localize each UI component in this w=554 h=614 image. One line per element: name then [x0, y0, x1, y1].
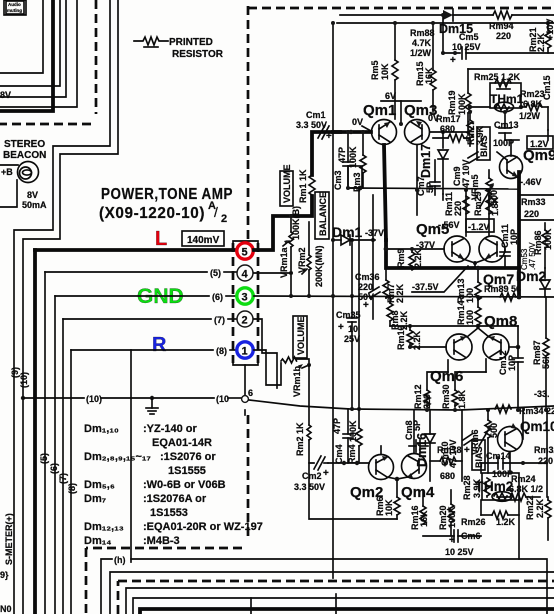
- svg-text:2: 2: [221, 213, 227, 225]
- svg-text:9}: 9}: [0, 570, 9, 580]
- svg-text:Qm9: Qm9: [523, 147, 554, 164]
- svg-text:VOLUME: VOLUME: [282, 164, 292, 203]
- lamp wires: [0, 164, 18, 166]
- svg-text:-37.5V: -37.5V: [412, 282, 439, 292]
- svg-text:Rm28: Rm28: [462, 475, 472, 500]
- svg-text:Qm8: Qm8: [484, 313, 517, 330]
- svg-text:47P: 47P: [337, 147, 347, 163]
- svg-text:220: 220: [358, 282, 373, 292]
- svg-text:Rm23: Rm23: [520, 89, 545, 99]
- junction dots lower bus: [350, 407, 354, 411]
- transistor Qm5: [444, 236, 470, 262]
- svg-text:(10: (10: [216, 394, 229, 404]
- svg-text:Cm36: Cm36: [355, 272, 380, 282]
- thick wire L net: [35, 248, 236, 252]
- emitter join Qm5 Qm7: [463, 259, 486, 263]
- svg-text:Dm₂,₈,₉,₁₅~₁₇: Dm₂,₈,₉,₁₅~₁₇: [84, 451, 151, 463]
- pot VRm1b: [281, 357, 297, 363]
- svg-text:-33.: -33.: [534, 389, 550, 399]
- BIAS box 2: [472, 440, 485, 470]
- svg-text:-.56V: -.56V: [438, 220, 460, 230]
- svg-text:VRm2: VRm2: [297, 247, 307, 273]
- wire staircase S1: [14, 0, 110, 614]
- wire (10) row: [23, 397, 84, 399]
- svg-text:(6): (6): [49, 463, 59, 474]
- vertical column x443: [442, 15, 444, 53]
- svg-text:Rm4: Rm4: [347, 444, 357, 464]
- svg-text:Dm₇: Dm₇: [84, 493, 106, 505]
- capacitor Cm1: [318, 125, 325, 138]
- svg-text:100: 100: [465, 288, 475, 303]
- dashed boundary lower: [247, 415, 250, 540]
- svg-text:220: 220: [538, 456, 553, 466]
- wire pin4 to pot: [254, 272, 291, 274]
- svg-text:EQA01-14R: EQA01-14R: [152, 437, 212, 449]
- svg-text::M4B-3: :M4B-3: [143, 535, 180, 547]
- wire corner 3 top-left: [0, 0, 66, 97]
- svg-text:R: R: [152, 334, 167, 356]
- capacitor Cm2: [314, 456, 321, 469]
- svg-text:BALANCE: BALANCE: [318, 192, 328, 236]
- label 1.2V: [527, 136, 553, 149]
- svg-text:/: /: [214, 204, 218, 220]
- svg-text:PRINTED: PRINTED: [169, 37, 213, 48]
- svg-text:(7): (7): [214, 315, 225, 325]
- dashed row: [117, 581, 120, 614]
- collector wires: [380, 446, 382, 454]
- svg-text:-37V: -37V: [365, 228, 384, 238]
- svg-text:1: 1: [242, 346, 248, 358]
- svg-text:Dm17: Dm17: [419, 144, 433, 178]
- svg-text:4.7K: 4.7K: [412, 38, 432, 48]
- svg-text:5P: 5P: [412, 420, 422, 431]
- svg-text:100: 100: [465, 310, 475, 325]
- svg-text::1S2076 or: :1S2076 or: [160, 451, 216, 463]
- vertical x359 long: [358, 188, 360, 409]
- svg-text:(5): (5): [210, 268, 221, 278]
- svg-text:-37V: -37V: [416, 240, 435, 250]
- svg-text:BIAS: BIAS: [474, 446, 484, 468]
- svg-text:220: 220: [496, 31, 511, 41]
- svg-text:THm1: THm1: [490, 92, 524, 106]
- svg-text:3.3 50V: 3.3 50V: [296, 120, 327, 130]
- pot VRm2 balance: [308, 222, 310, 255]
- diode Dm15: [443, 10, 453, 20]
- svg-text:10 25V: 10 25V: [445, 547, 474, 557]
- svg-text:Qm10: Qm10: [520, 419, 554, 434]
- base wire Qm2: [328, 462, 369, 464]
- resistor Rm15 vertical: [432, 23, 434, 70]
- svg-text:STEREO: STEREO: [4, 139, 45, 150]
- svg-text:220: 220: [524, 209, 539, 219]
- resistor Rm1: [309, 175, 315, 195]
- thick bottom wire: [140, 609, 554, 614]
- emitter join: [399, 122, 403, 126]
- svg-text:47P: 47P: [332, 418, 342, 434]
- svg-text:BIAS: BIAS: [479, 135, 489, 157]
- svg-text:1S1553: 1S1553: [150, 507, 188, 519]
- Rm33: [519, 194, 554, 196]
- svg-text:(7): (7): [58, 473, 68, 484]
- pin 1 blue: [237, 342, 253, 358]
- svg-text:Cm15: Cm15: [542, 75, 552, 100]
- svg-text:Rm29: Rm29: [473, 191, 483, 216]
- svg-text:-1.2V: -1.2V: [468, 222, 490, 232]
- wire bus from 6: [249, 400, 554, 410]
- svg-text:(8): (8): [67, 483, 77, 494]
- svg-text:+: +: [338, 322, 344, 333]
- svg-text:6.8K 1/2: 6.8K 1/2: [509, 484, 543, 494]
- collector columns Qm5 Qm7: [465, 190, 467, 236]
- svg-text:Cm1: Cm1: [306, 110, 326, 120]
- svg-text:Qm1: Qm1: [363, 102, 396, 119]
- svg-text:6: 6: [248, 388, 253, 398]
- resistor Rm94: [493, 11, 512, 19]
- emitter join Qm2 Qm4: [387, 477, 408, 479]
- svg-text:Qm4: Qm4: [401, 484, 435, 501]
- svg-text:Rm10: Rm10: [396, 325, 406, 350]
- svg-text:BEACON: BEACON: [3, 150, 46, 161]
- svg-text:6V: 6V: [385, 91, 396, 101]
- svg-text:10K: 10K: [384, 499, 394, 516]
- svg-text:(10): (10): [86, 394, 102, 404]
- pin 3 green: [237, 288, 253, 304]
- svg-text:Rm17: Rm17: [436, 114, 461, 124]
- wire row 3: [126, 588, 554, 614]
- wire row 4: [133, 598, 554, 614]
- svg-text:3.9K: 3.9K: [472, 478, 482, 498]
- base wires: [333, 130, 371, 134]
- svg-text:+B: +B: [1, 167, 13, 177]
- ground symbol: [150, 396, 154, 400]
- junction dots: [393, 21, 397, 25]
- THm1 thermistor box: [490, 83, 521, 108]
- wire corner 2 top-left: [0, 0, 60, 86]
- wire branch to (h): [130, 350, 132, 562]
- svg-text:5: 5: [242, 247, 248, 259]
- wire Cm5 row: [443, 52, 460, 54]
- svg-text:Rm32: Rm32: [534, 445, 554, 455]
- svg-text:Qm6: Qm6: [430, 368, 463, 385]
- thick wire pin5 to Rm1: [254, 196, 312, 250]
- svg-text:S-METER(+): S-METER(+): [4, 513, 14, 565]
- resistor Rm5 vertical: [394, 23, 396, 60]
- svg-text:5P: 5P: [425, 182, 435, 193]
- svg-text:Dm₁₂,₁₃: Dm₁₂,₁₃: [84, 521, 124, 533]
- svg-text:680: 680: [440, 124, 455, 134]
- svg-text:10K: 10K: [380, 63, 390, 80]
- svg-text:.47 50V: .47 50V: [528, 242, 537, 270]
- svg-text:200K(MN): 200K(MN): [314, 245, 324, 287]
- Audio muting box: [4, 0, 26, 15]
- THm2 box: [482, 473, 519, 500]
- wire pin4 row: [45, 271, 207, 273]
- svg-text:220: 220: [453, 201, 463, 216]
- svg-text:VRm1b: VRm1b: [292, 365, 302, 397]
- printed resistor legend: [134, 37, 168, 45]
- svg-text:Rm22: Rm22: [525, 495, 535, 520]
- junction on (10): [21, 396, 25, 400]
- svg-text:2: 2: [242, 315, 248, 327]
- svg-text::EQA01-20R or WZ-197: :EQA01-20R or WZ-197: [143, 521, 263, 533]
- vertical x352 mid: [351, 240, 353, 296]
- dashed boundary top-left: [95, 0, 98, 114]
- svg-text:2.2K: 2.2K: [413, 248, 423, 268]
- svg-text:Rm9: Rm9: [396, 248, 406, 268]
- svg-text:Rm26: Rm26: [461, 517, 486, 527]
- pin 4: [237, 265, 253, 281]
- svg-text:Rm30: Rm30: [441, 384, 451, 409]
- svg-text:(h): (h): [114, 555, 126, 565]
- svg-text:1.8K: 1.8K: [490, 196, 500, 216]
- rail above Qm6 Qm8: [390, 325, 518, 327]
- svg-text:140mV: 140mV: [187, 235, 220, 246]
- thick rail from Qm9: [517, 172, 521, 297]
- svg-text::1S2076A or: :1S2076A or: [143, 493, 207, 505]
- collector Qm3: [416, 145, 418, 215]
- svg-text:16K: 16K: [424, 67, 434, 84]
- svg-text:N0: N0: [0, 604, 12, 614]
- svg-text:10: 10: [348, 324, 358, 334]
- svg-text:-.46V: -.46V: [520, 177, 542, 187]
- svg-text:RESISTOR: RESISTOR: [172, 49, 224, 60]
- svg-text:Rm1 1K: Rm1 1K: [298, 169, 308, 203]
- svg-text:+: +: [450, 55, 456, 66]
- wire (h) row: [101, 559, 112, 614]
- pin 2: [237, 311, 253, 327]
- BALANCE box: [315, 192, 329, 239]
- svg-text:+: +: [363, 300, 369, 311]
- svg-text:(6): (6): [212, 292, 223, 302]
- connector body: [233, 241, 258, 243]
- svg-text:1.2K: 1.2K: [496, 517, 516, 527]
- svg-text:(10): (10): [19, 372, 29, 388]
- svg-text::W0-6B or V06B: :W0-6B or V06B: [143, 479, 226, 491]
- svg-text:Cm3: Cm3: [333, 170, 343, 190]
- wire pin1 row: [71, 349, 213, 351]
- svg-text:100K: 100K: [457, 93, 467, 115]
- wire top H2: [337, 22, 554, 24]
- thick collector rail corner: [386, 240, 519, 268]
- svg-text:+: +: [464, 134, 470, 145]
- dashed boundary top: [247, 6, 250, 240]
- svg-text:Rm5: Rm5: [370, 60, 380, 80]
- pin 5 red: [237, 243, 253, 259]
- svg-text:Rm34 220: Rm34 220: [519, 406, 554, 416]
- bus under Qm1: [348, 188, 519, 189]
- svg-text:1S1555: 1S1555: [168, 465, 206, 477]
- svg-text:+: +: [323, 468, 329, 479]
- svg-text:(5): (5): [39, 453, 49, 464]
- collector Qm1 thick: [384, 145, 386, 240]
- svg-text:Dm₅,₆: Dm₅,₆: [84, 479, 115, 491]
- wire pin2 row: [63, 318, 211, 320]
- resistor Rm2: [307, 425, 311, 440]
- svg-text:100K: 100K: [348, 146, 358, 168]
- svg-text:VOLUME: VOLUME: [296, 316, 306, 355]
- svg-text:Rm24: Rm24: [511, 474, 536, 484]
- transistor Qm8: [483, 334, 509, 360]
- wire top H1 with diode Dm15 and Rm94: [340, 14, 441, 16]
- svg-text:8V: 8V: [0, 90, 11, 100]
- wire staircase S2: [23, 0, 118, 614]
- svg-text:Rm33: Rm33: [521, 197, 546, 207]
- wire corner 1 top-left: [0, 0, 43, 73]
- return loop thick: [309, 463, 397, 519]
- svg-text:Audio: Audio: [8, 2, 21, 7]
- svg-text:2.2K: 2.2K: [395, 283, 405, 303]
- svg-text:50mA: 50mA: [22, 200, 47, 210]
- svg-text:4: 4: [242, 269, 249, 281]
- svg-text:680: 680: [440, 471, 455, 481]
- wire pin3 GND row right: [254, 296, 554, 297]
- svg-text:3: 3: [242, 292, 248, 304]
- long vertical x333: [332, 23, 334, 132]
- resistor Rm19 vertical: [465, 93, 471, 113]
- wire row 2: [110, 572, 554, 614]
- resistor Rm3 printed box: [348, 166, 362, 188]
- svg-text:Dm₁₄: Dm₁₄: [84, 535, 112, 547]
- wire corner 4 top-left: [0, 0, 77, 107]
- wire column right x547: [546, 410, 548, 497]
- svg-text:47 10V: 47 10V: [448, 439, 458, 468]
- svg-text:100K: 100K: [348, 420, 358, 442]
- top join Qm6 Qm8: [467, 328, 489, 337]
- resistor Rm29: [488, 190, 490, 236]
- svg-text:2.2K: 2.2K: [535, 498, 545, 518]
- svg-text:L: L: [155, 228, 167, 250]
- BIAS box: [477, 127, 490, 160]
- svg-text:1/2W: 1/2W: [410, 48, 432, 58]
- svg-text:muting: muting: [7, 8, 22, 13]
- diode m row: [442, 194, 444, 200]
- wire pin1 to VRm1b: [254, 350, 281, 385]
- svg-text:Rm2 1K: Rm2 1K: [295, 422, 305, 456]
- wire pin2 hook: [254, 319, 277, 388]
- transistor Qm6: [446, 334, 472, 360]
- wire pin3 row: [55, 295, 209, 297]
- thick wire corner top-left: [0, 0, 53, 111]
- svg-text:Cm2: Cm2: [302, 471, 322, 481]
- svg-text:Cm4: Cm4: [334, 444, 344, 464]
- svg-text:Cm5: Cm5: [459, 32, 479, 42]
- svg-text:Rm88: Rm88: [410, 28, 435, 38]
- small box bottom verticals: [250, 598, 252, 614]
- svg-text:Dm₁,₁₀: Dm₁,₁₀: [84, 423, 119, 435]
- svg-text:Rm19: Rm19: [447, 90, 457, 115]
- top rail THm1 area: [468, 68, 554, 70]
- svg-text:(8): (8): [216, 346, 227, 356]
- svg-text:8V: 8V: [27, 190, 38, 200]
- 140mV box: [182, 231, 224, 246]
- svg-text:(X09-1220-10): (X09-1220-10): [99, 205, 205, 222]
- VOLUME box lower: [293, 316, 307, 358]
- emitter wires Qm6 Qm8: [509, 346, 518, 348]
- VOLUME box upper: [280, 171, 293, 206]
- svg-text::YZ-140 or: :YZ-140 or: [143, 423, 198, 435]
- wire VRm1b to Rm2: [308, 365, 310, 425]
- lamp: [18, 162, 39, 183]
- svg-text:10P: 10P: [509, 229, 519, 245]
